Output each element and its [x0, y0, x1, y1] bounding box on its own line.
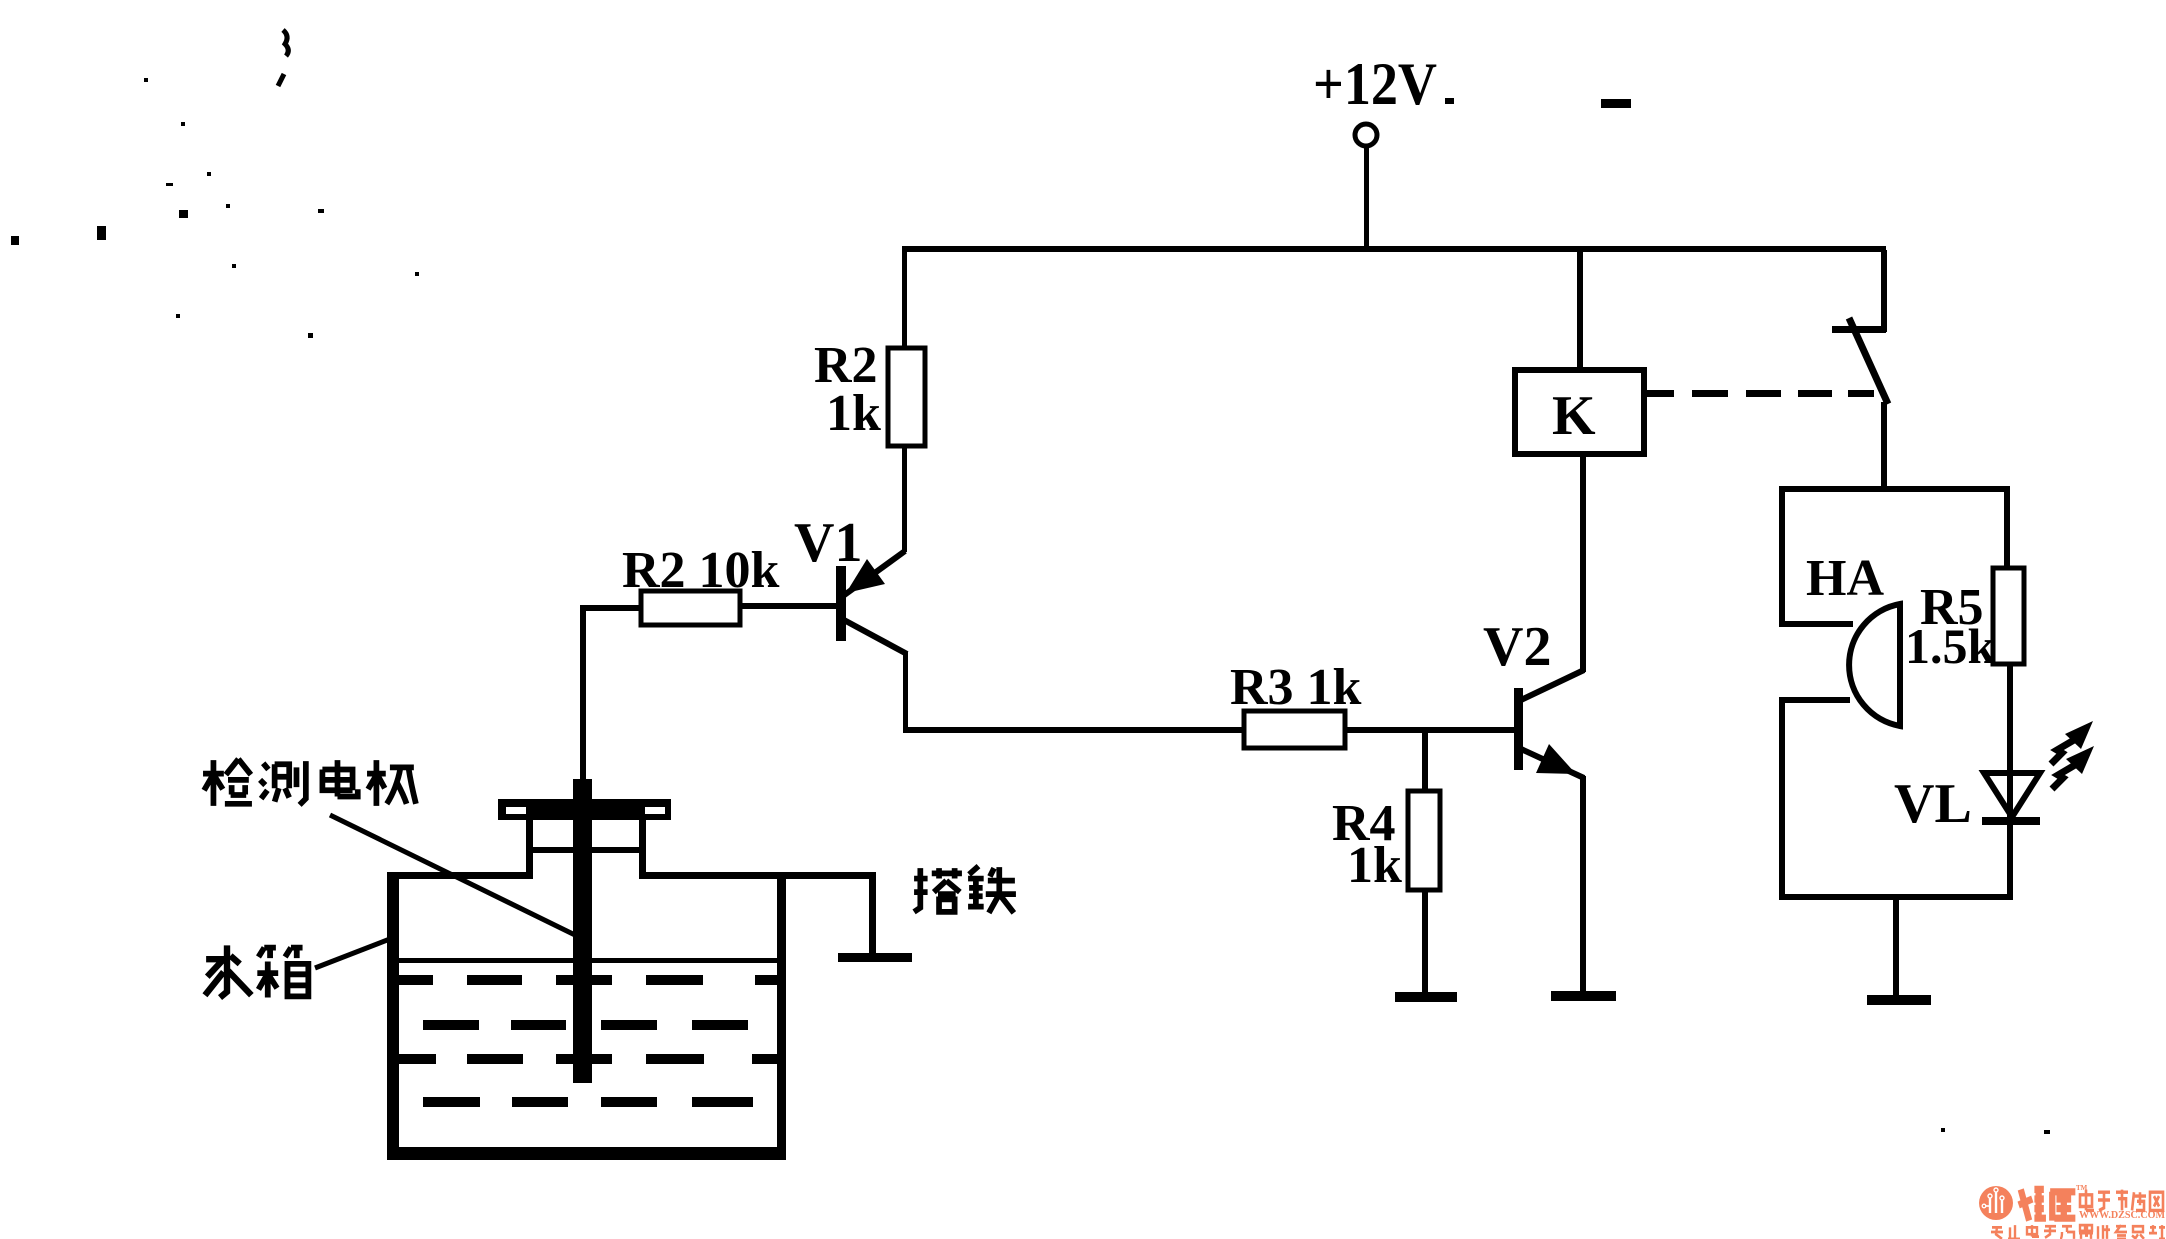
wire V1 collector down [903, 652, 908, 731]
wire +12V terminal to rail [1364, 146, 1369, 250]
tank left wall [387, 872, 399, 1160]
svg-text:K: K [1552, 385, 1596, 447]
HA lower notch line [1779, 697, 1850, 703]
dashed link K to switch [1647, 390, 1874, 397]
buzzer HA dome [1849, 604, 1900, 726]
neck left wall [526, 820, 533, 879]
tank top-right edge [643, 872, 876, 879]
wire rail right end down to switch [1881, 250, 1887, 332]
HA network top edge [1779, 486, 2010, 492]
label 检测电极 [203, 759, 416, 806]
wire R5 through LED to bottom edge [2007, 664, 2013, 900]
transistor V2 emitter arrow [1536, 744, 1576, 774]
resistor R3 1k body [1244, 711, 1345, 748]
resistor R5 body [1993, 568, 2024, 664]
resistor R2 10k body [641, 591, 740, 625]
watermark slogan 专业电子元器件交易网站 [1991, 1225, 2165, 1239]
HA network bottom edge [1779, 894, 2010, 900]
wire R4 to ground [1422, 890, 1428, 992]
wire tank to chassis ground [869, 872, 876, 957]
svg-text:VL: VL [1894, 773, 1972, 835]
ground bar V2 [1551, 991, 1616, 1001]
wire V2 emitter down [1580, 776, 1586, 991]
HA network left edge lower [1779, 697, 1785, 900]
transistor V1 emitter diagonal [843, 551, 905, 596]
wire top supply rail [902, 246, 1886, 252]
transistor V1 base bar [836, 566, 846, 641]
transistor V1 emitter arrow [846, 559, 885, 593]
svg-text:V2: V2 [1483, 616, 1551, 678]
neck right wall [639, 820, 646, 879]
HA network right edge upper [2004, 486, 2010, 568]
leader line 水箱 to tank [315, 937, 395, 968]
HA upper notch line [1779, 621, 1853, 627]
wire rail to R2 1k [902, 250, 907, 350]
wire corner down to electrode [580, 605, 586, 780]
switch blade [1849, 318, 1888, 404]
tank top-left edge [387, 872, 530, 879]
svg-text:+12V: +12V [1313, 51, 1437, 117]
ground bar HA [1867, 995, 1931, 1005]
wire R3 to V2 base [1345, 727, 1515, 733]
LED light arrow 1 [2051, 721, 2093, 764]
wire R2 10k left to corner [582, 605, 641, 611]
neck seal line [533, 847, 639, 853]
wire V1 collector to R3 [903, 727, 1244, 733]
leader line 检测电极 to electrode [330, 815, 575, 935]
switch fixed contact [1832, 326, 1886, 333]
label 搭铁 [914, 866, 1016, 913]
cap notch left [506, 807, 526, 814]
transistor V2 emitter diagonal [1521, 749, 1584, 778]
watermark logo circle [1979, 1186, 2013, 1220]
LED VL triangle [1984, 773, 2040, 817]
resistor R2 1k body [888, 348, 925, 446]
svg-text:V1: V1 [794, 512, 862, 574]
LED light arrow 2 [2052, 746, 2094, 789]
svg-text:WWW.DZSC.COM: WWW.DZSC.COM [2079, 1210, 2166, 1221]
wire rail to K [1577, 250, 1583, 370]
wire bottom to ground [1893, 900, 1899, 995]
chassis ground bar 搭铁 [838, 953, 912, 962]
svg-text:R3 1k: R3 1k [1230, 659, 1362, 716]
water dashes row 2 [423, 1020, 748, 1030]
transistor V1 collector diagonal [844, 620, 907, 654]
watermark 电子市场网 text [2080, 1190, 2163, 1211]
tank right wall [777, 872, 786, 1160]
LED VL cathode bar [1982, 817, 2040, 825]
watermark 维库 text [2019, 1189, 2076, 1220]
svg-text:HA: HA [1806, 550, 1884, 607]
transistor V2 collector diagonal [1521, 670, 1584, 700]
transistor V1 base wire [740, 603, 836, 609]
svg-text:R2 10k: R2 10k [622, 542, 780, 599]
water dashes row 4 [423, 1097, 753, 1107]
svg-text:1k: 1k [826, 385, 881, 442]
wire K to V2 collector [1580, 453, 1586, 672]
water dashes row 1 [392, 975, 777, 985]
ground bar R4 [1395, 992, 1457, 1002]
HA network left edge upper [1779, 486, 1785, 627]
label 水箱 [205, 945, 308, 997]
tank bottom [387, 1147, 786, 1160]
svg-text:1k: 1k [1347, 837, 1402, 894]
relay K box [1515, 370, 1644, 454]
power terminal circle [1355, 124, 1377, 146]
wire switch to HA box [1881, 402, 1887, 490]
water surface line [399, 958, 777, 963]
tank cap bar [498, 799, 671, 820]
svg-text:1.5k: 1.5k [1905, 618, 1996, 674]
resistor R4 body [1408, 791, 1440, 890]
wire R2 1k to V1 emitter [902, 446, 907, 552]
wire node to R4 [1422, 730, 1428, 791]
cap notch right [645, 807, 665, 814]
transistor V2 base bar [1514, 688, 1523, 770]
detection electrode rod [573, 779, 592, 1083]
water dashes row 3 [392, 1054, 777, 1064]
